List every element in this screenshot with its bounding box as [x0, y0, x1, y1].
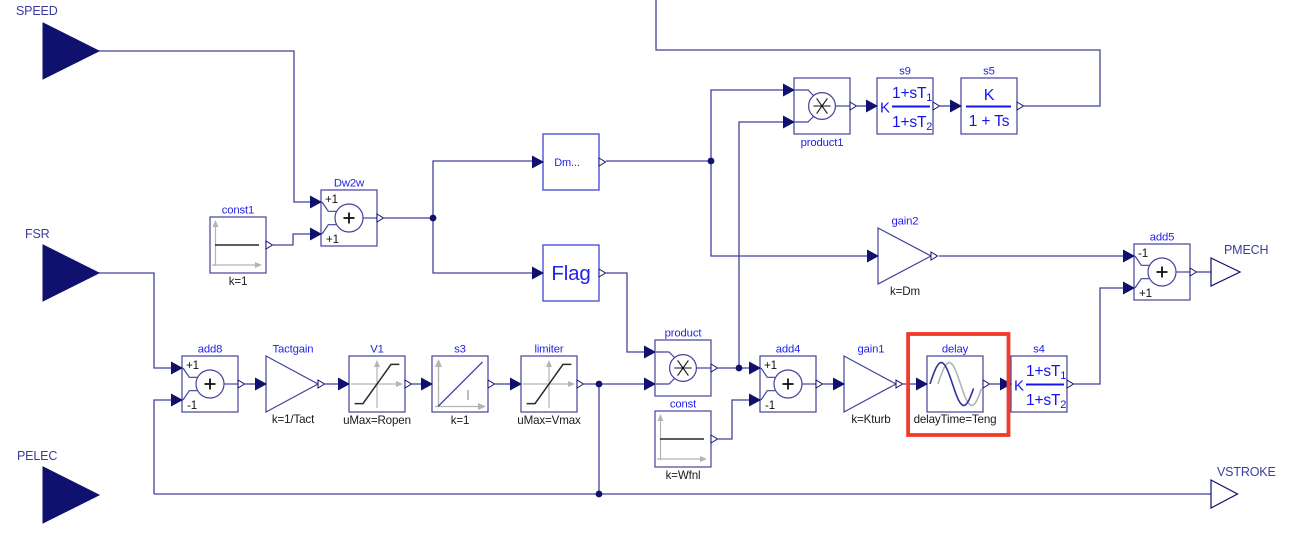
wire s9.y to s5.u: [940, 105, 950, 107]
svg-text:add8: add8: [198, 344, 223, 356]
svg-text:+1: +1: [1139, 287, 1152, 300]
svg-text:s4: s4: [1033, 344, 1045, 356]
svg-text:Tactgain: Tactgain: [273, 344, 314, 356]
svg-text:V1: V1: [370, 344, 384, 356]
wire Dm.y to node J2: [606, 160, 711, 162]
svg-text:FSR: FSR: [25, 227, 50, 241]
output VSTROKE: [1211, 465, 1276, 508]
adder add8: [171, 344, 245, 413]
wire add5.y to PMECH: [1197, 271, 1211, 273]
input SPEED: [16, 4, 99, 79]
svg-text:+1: +1: [325, 193, 338, 206]
svg-text:+1: +1: [326, 233, 339, 246]
wire const.y to add4.u2: [718, 400, 749, 439]
svg-text:SPEED: SPEED: [16, 4, 58, 18]
svg-text:+1: +1: [186, 359, 199, 372]
svg-text:1+sT1: 1+sT1: [1026, 363, 1066, 382]
svg-text:product1: product1: [801, 137, 844, 149]
wire s5.y feedback to top edge: [656, 0, 1100, 106]
svg-text:-1: -1: [1138, 247, 1148, 260]
svg-text:s9: s9: [899, 66, 911, 78]
svg-text:+1: +1: [764, 359, 777, 372]
constant const1: [210, 205, 273, 289]
node J2: [708, 158, 715, 165]
svg-text:PMECH: PMECH: [1224, 243, 1269, 257]
wire node J1 to Flag.u: [433, 218, 532, 273]
node J3 limiter branch: [596, 381, 603, 388]
node J1: [430, 215, 437, 222]
wire node J2 to product1.u1: [711, 90, 783, 161]
wire s3.y to limiter.u: [495, 383, 510, 385]
block Dm (Dm_select): [532, 134, 606, 190]
svg-text:const1: const1: [222, 205, 254, 217]
multiplier product1: [783, 78, 857, 149]
integrator s3: [421, 344, 495, 428]
adder add4: [749, 344, 823, 413]
svg-text:k=Dm: k=Dm: [890, 285, 920, 298]
svg-text:Flag: Flag: [551, 262, 590, 285]
wire gain2.y to add5.u1: [939, 255, 1123, 257]
wire V1.y to s3.u: [412, 383, 421, 385]
svg-text:PELEC: PELEC: [17, 449, 57, 463]
wire product.y to add4.u1: [718, 367, 749, 369]
svg-text:delayTime=Teng: delayTime=Teng: [914, 413, 997, 426]
svg-text:K: K: [880, 100, 890, 117]
svg-text:const: const: [670, 399, 697, 411]
first-order s5: [950, 66, 1024, 135]
wire node J1 to Dm.u: [433, 161, 532, 218]
wire limiter branch down to bottom run: [598, 384, 600, 494]
limiter limiter: [510, 344, 584, 428]
wire SPEED to Dw2w.u1: [98, 51, 310, 202]
wire feedback riser to add8.u2: [154, 400, 171, 494]
output PMECH: [1211, 243, 1269, 286]
wire add4.y to gain1.u: [823, 383, 833, 385]
svg-text:uMax=Ropen: uMax=Ropen: [343, 414, 411, 427]
wire limiter.y to product.u2: [584, 383, 644, 385]
svg-text:delay: delay: [942, 344, 969, 356]
wire gain1.y to delay.u: [903, 383, 916, 385]
svg-text:limiter: limiter: [534, 344, 563, 356]
wire const1.y to Dw2w.u2: [273, 234, 310, 245]
node J5 bottom run: [596, 491, 603, 498]
fixed delay block delay: [914, 344, 997, 427]
wire FSR to add8.u1: [98, 273, 171, 368]
wire Tactgain.y to V1.u: [325, 383, 338, 385]
lead-lag s9: [866, 66, 940, 135]
wire product1.y to s9.u: [857, 105, 866, 107]
svg-text:add5: add5: [1150, 232, 1175, 244]
svg-text:product: product: [665, 328, 703, 340]
svg-text:s5: s5: [983, 66, 995, 78]
svg-text:Dm...: Dm...: [554, 157, 580, 169]
svg-text:1+sT1: 1+sT1: [892, 85, 932, 104]
limiter V1: [338, 344, 412, 428]
svg-text:K: K: [1014, 378, 1024, 395]
svg-text:1 + Ts: 1 + Ts: [969, 113, 1010, 130]
red highlight box around delay block: [908, 334, 1008, 435]
svg-text:add4: add4: [776, 344, 801, 356]
gain gain2: [867, 216, 938, 299]
svg-text:-1: -1: [765, 399, 775, 412]
svg-text:k=Wfnl: k=Wfnl: [666, 469, 701, 482]
gain gain1: [833, 344, 903, 427]
wire node J2 to gain2.u: [711, 161, 867, 256]
wire Dw2w.y to node J1: [384, 217, 433, 219]
svg-text:s3: s3: [454, 344, 466, 356]
svg-text:k=1: k=1: [229, 275, 248, 288]
svg-text:1+sT2: 1+sT2: [1026, 392, 1066, 411]
svg-text:VSTROKE: VSTROKE: [1217, 465, 1276, 479]
lead-lag s4: [1000, 344, 1074, 413]
svg-text:Dw2w: Dw2w: [334, 178, 365, 190]
node J4 product branch: [736, 365, 743, 372]
svg-text:K: K: [984, 87, 995, 104]
wire s4.y to add5.u2: [1074, 288, 1123, 384]
wire valve-stroke feedback bottom run: [154, 493, 1211, 495]
svg-text:k=Kturb: k=Kturb: [851, 413, 890, 426]
wire node J4 up to product1.u2: [739, 122, 783, 368]
wire Flag.y to product.u1: [606, 273, 644, 352]
gain Tactgain: [255, 344, 325, 427]
svg-text:k=1/Tact: k=1/Tact: [272, 413, 315, 426]
svg-text:uMax=Vmax: uMax=Vmax: [517, 414, 581, 427]
wire add8.y to Tactgain.u: [245, 383, 255, 385]
adder add5: [1123, 232, 1197, 301]
svg-text:gain2: gain2: [892, 216, 919, 228]
svg-text:1+sT2: 1+sT2: [892, 114, 932, 133]
svg-text:-1: -1: [187, 399, 197, 412]
svg-text:k=1: k=1: [451, 414, 470, 427]
input PELEC: [17, 449, 99, 523]
multiplier product: [644, 328, 718, 397]
block Flag: [532, 245, 606, 301]
constant const: [655, 399, 718, 483]
adder Dw2w: [310, 178, 384, 247]
wire delay.y to s4.u: [990, 383, 1000, 385]
input FSR: [25, 227, 99, 301]
svg-text:gain1: gain1: [858, 344, 885, 356]
